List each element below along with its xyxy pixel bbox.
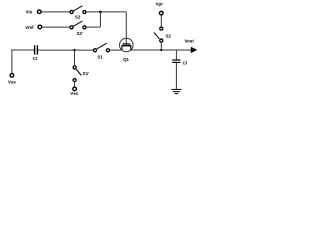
svg-text:S2: S2 <box>166 33 172 38</box>
switch S2 <box>70 6 86 14</box>
transistor Q1 left leg <box>121 46 123 50</box>
arrow Vout <box>191 47 198 53</box>
transistor Q1 gate bar <box>123 43 130 45</box>
wire S2 switch to output line <box>160 43 162 50</box>
svg-text:Vpr: Vpr <box>156 2 164 7</box>
switch S2' <box>70 21 86 29</box>
capacitor Ct <box>35 45 38 54</box>
terminal Vin <box>38 10 42 14</box>
svg-text:Vss: Vss <box>70 91 78 96</box>
wire S2 to gate corner <box>86 11 126 13</box>
transistor Q1 body circle <box>120 38 134 52</box>
terminal Vref <box>38 25 42 29</box>
switch S1 <box>93 43 109 52</box>
svg-text:Vout: Vout <box>184 38 194 43</box>
wire gate column down to Q1 <box>125 12 127 44</box>
terminal Vpr <box>160 11 164 15</box>
wire junction down to Vref row <box>99 12 101 27</box>
switch S2 right <box>154 27 163 42</box>
wire left corner to Ct <box>12 50 34 73</box>
capacitor Cl <box>172 60 180 62</box>
terminal Vss left <box>10 74 14 78</box>
wire S1' to Vss terminal <box>74 82 76 86</box>
svg-text:Ct: Ct <box>33 56 38 61</box>
svg-text:Vin: Vin <box>26 9 33 14</box>
terminal Vss bottom <box>73 87 77 91</box>
junction dot output <box>160 49 162 51</box>
svg-text:Q1: Q1 <box>123 57 129 62</box>
svg-text:S1: S1 <box>97 54 103 59</box>
svg-text:S2': S2' <box>76 31 82 36</box>
wire S2' to junction <box>86 26 100 28</box>
wire Cl to ground <box>175 63 177 89</box>
svg-text:Vss: Vss <box>8 80 16 85</box>
svg-text:Vref: Vref <box>25 25 34 30</box>
switch S1' <box>73 66 81 82</box>
wire Ct to S1 <box>38 49 93 51</box>
ground <box>171 89 181 93</box>
wire S1 to Q1 <box>110 49 122 51</box>
wire Cl branch down <box>175 50 177 60</box>
svg-text:S1': S1' <box>83 71 89 76</box>
transistor Q1 right leg <box>130 46 132 50</box>
transistor Q1 channel bar <box>122 45 132 47</box>
wire Q1 to output <box>131 49 191 51</box>
wire Vin to S2 <box>41 11 69 13</box>
svg-text:Cl: Cl <box>183 60 187 65</box>
junction dot top row <box>99 11 102 14</box>
wire Vpr to S2 switch <box>160 16 162 27</box>
wire Vref to S2' <box>42 26 70 28</box>
junction dot bottom row <box>73 49 75 51</box>
svg-text:S2: S2 <box>75 14 81 19</box>
wire S1' branch down <box>74 50 76 65</box>
